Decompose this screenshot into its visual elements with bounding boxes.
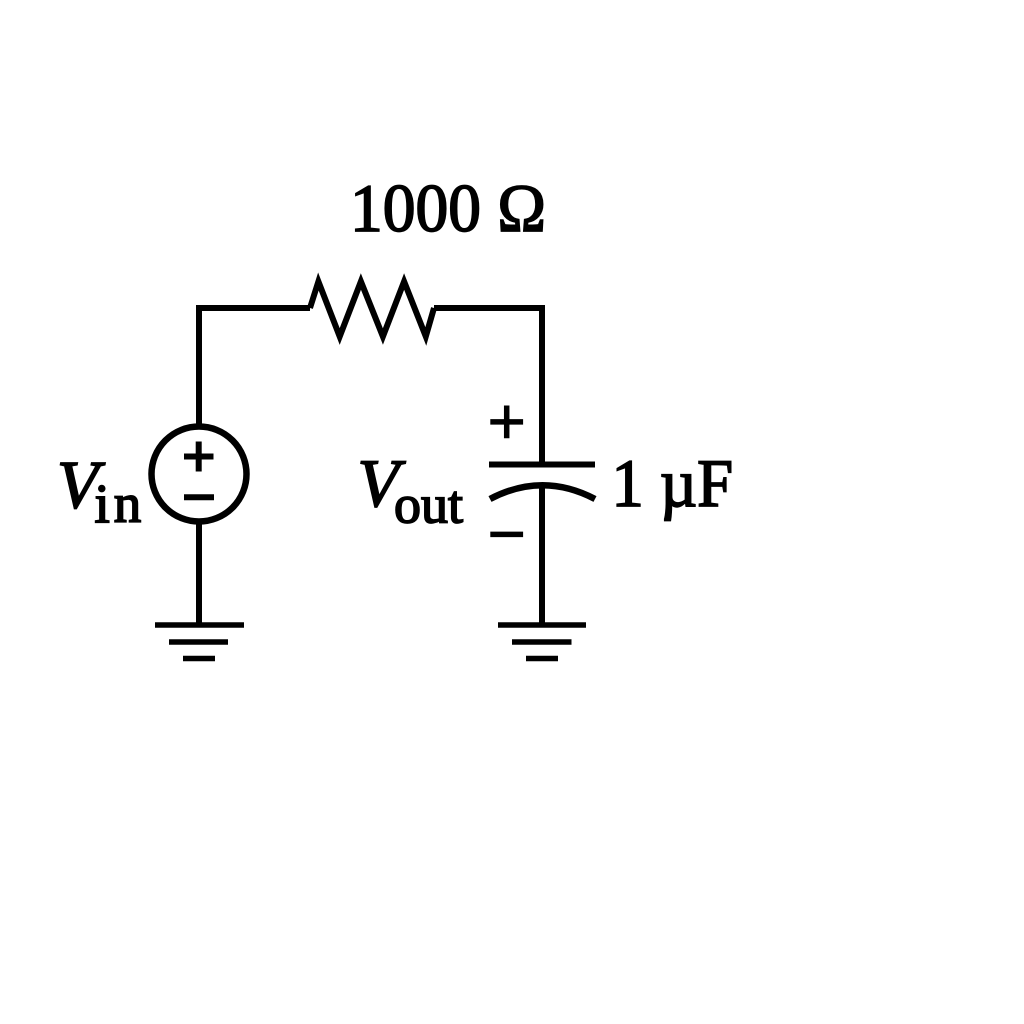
resistor R1 zigzag [310,282,434,337]
wire: source bottom lead to ground [196,521,202,625]
wire: capacitor to ground [539,484,545,625]
voltage source plus sign [184,442,214,472]
svg-text:1000 Ω: 1000 Ω [350,170,546,246]
capacitor minus polarity mark [490,532,523,538]
capacitor C1 curved bottom plate [490,485,595,499]
ground (source) [155,625,244,659]
svg-text:1 µF: 1 µF [612,445,734,521]
wire: source top lead up and across to resistor [199,308,310,427]
svg-text:out: out [394,475,463,535]
svg-text:in: in [95,473,146,534]
capacitor C1 top plate [489,462,595,468]
capacitor plus polarity mark [490,406,523,439]
voltage source minus sign [184,494,214,500]
wire: resistor to capacitor top [434,308,542,465]
voltage source Vin circle [152,427,247,522]
ground (capacitor) [498,625,586,659]
